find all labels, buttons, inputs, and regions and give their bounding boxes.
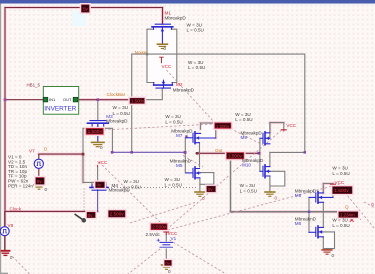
svg-text:L = 0.5U: L = 0.5U [188,65,205,70]
node right rail corner [304,151,307,154]
halo out row wire [200,152,260,155]
transistor M5 (vertical, gate left) [186,167,200,179]
transistor M6 (vertical, gate left) [309,226,323,238]
svg-text:Noise: Noise [135,50,147,55]
svg-text:1.500v: 1.500v [228,154,242,159]
wire M4 gate clock drop [97,190,99,211]
svg-text:0: 0 [275,196,278,201]
node clockbar at purple row [130,151,133,154]
svg-text:Out: Out [215,148,223,153]
svg-text:VCC: VCC [335,180,345,185]
wire dashed K [231,129,264,146]
wire M7 drain loop [201,123,216,138]
svg-text:0: 0 [168,269,171,274]
node noise rail crossing [146,53,148,55]
purple wire row [98,152,186,211]
svg-text:L = 0.5U: L = 0.5U [235,117,252,122]
source V7 pulse [34,154,43,178]
halo m8 vcc wire [323,184,333,193]
wire V8 to ground [4,236,6,251]
svg-text:L = 0.5U: L = 0.5U [165,183,182,188]
svg-text:G: G [371,202,374,207]
svg-text:M9: M9 [241,135,248,140]
svg-text:M2: M2 [176,82,183,87]
svg-text:VCC: VCC [98,160,108,165]
bias box M8 1.500v [333,187,352,195]
svg-text:M10: M10 [242,163,251,168]
svg-text:0v: 0v [88,213,93,218]
svg-text:W = 3U: W = 3U [165,177,180,182]
svg-text:W = 3U: W = 3U [113,105,128,110]
transistor M2 (horizontal, gate below) [154,80,173,88]
ground under V8 (selected red) [1,251,11,256]
wire D net from V7 to left rail [39,153,83,155]
svg-text:V8: V8 [8,223,14,228]
svg-text:0v: 0v [166,261,170,266]
ground under V1 [161,265,172,269]
wire left rail vertical [4,8,6,227]
bias box clock 2.500v [109,211,125,217]
wire M5 to ground [199,184,201,191]
wire clockbar to M2 gate [132,88,163,99]
halo clock wire [5,210,98,213]
ground under M1 [157,44,169,48]
bias box clock0v [87,212,95,218]
VCC symbol near M4 [97,165,99,167]
svg-text:W = 3U: W = 3U [332,166,347,171]
left window edge [0,4,1,274]
wire M10 to ground [269,186,271,191]
red X marker [350,218,361,222]
halo inverter out wire [78,98,132,101]
svg-text:L = 0.5U: L = 0.5U [332,223,349,228]
wire dashed VCC C [99,162,165,227]
wire V1 battery stem [165,230,167,242]
svg-text:1.500v: 1.500v [131,99,145,104]
ground under M5 [194,192,205,196]
wire M1M2 right rail [172,29,177,82]
svg-text:Q: Q [345,204,349,209]
svg-text:INVERTER: INVERTER [44,106,77,113]
svg-text:2.5Vdc: 2.5Vdc [146,232,161,237]
svg-text:W = 3U: W = 3U [165,114,180,119]
cell interiors [148,30,334,248]
source V1 battery [157,239,173,248]
node gate rail q row [308,211,311,214]
svg-text:1.500v: 1.500v [216,124,230,129]
wire dashed I [342,189,375,229]
transistor M7 (vertical, gate left) [186,132,216,144]
svg-text:OUT: OUT [63,97,72,102]
bias box Q 1.234m [339,212,358,218]
svg-text:0v: 0v [37,179,43,184]
wire dashed VCC A [167,70,215,123]
svg-text:0: 0 [164,46,167,51]
wire M6 source loop [322,232,335,249]
transistor M4 (horizontal, gate below) [90,184,108,190]
bias box out 1.500v [227,153,244,159]
transistor M9 (vertical, gate left) [260,132,270,145]
node inverter input on rail [4,98,7,101]
svg-text:M6: M6 [295,221,302,226]
wire M7 source / M5 drain [199,143,201,167]
ground under M6 (selected red) [321,250,332,254]
node out left [196,152,199,155]
bias box V7 0v [36,178,44,185]
wire noise purple row [112,151,185,153]
ground under V7 [33,185,44,189]
svg-text:W = 3U: W = 3U [187,22,202,27]
VCC symbol near M9 [281,129,287,132]
svg-text:0v: 0v [208,187,213,192]
transistor M3 (horizontal, gate on top) [88,121,109,142]
svg-text:L = 0.5U: L = 0.5U [187,28,204,33]
VCC symbol near M2 [159,57,163,63]
wire dashed VCC E [170,128,284,227]
wire dashed VCC B [104,124,213,130]
svg-text:W = 3U: W = 3U [235,112,250,117]
VCC symbol near M8 [330,184,336,187]
halo q wire [231,210,340,213]
svg-text:1.500V: 1.500V [88,129,104,134]
node D at left rail [82,153,85,156]
wire dashed gnd D [13,257,30,274]
wire left rail down to M4 [83,154,94,182]
wire M6 to ground [327,249,329,250]
node M3 gate at clockbar [97,98,100,101]
bias box clockbar 1.500v [130,98,145,103]
wire dashed H [130,203,195,224]
halo D wire [39,154,83,182]
svg-text:W = 3U: W = 3U [332,217,347,222]
node out at M9M10 gate rail [258,152,261,155]
wire dashed J [364,202,375,208]
svg-text:MbreakpD: MbreakpD [165,15,187,20]
svg-text:0: 0 [100,145,103,150]
wire out drop to q row [231,153,340,211]
source V8 pulse [0,211,9,250]
wire M1 gate from rail [162,8,164,25]
svg-text:M5: M5 [176,163,183,168]
svg-text:5v: 5v [83,6,89,11]
op block U1 INVERTER [43,87,78,115]
wire noise long rail [132,54,305,152]
wire M9 drain vcc [270,123,284,133]
wire M3 left to rail [83,128,92,154]
wire M3 right stub to purple row [104,128,113,152]
svg-text:0: 0 [45,187,48,192]
svg-text:MbreakpD: MbreakpD [106,119,128,124]
wire M8 bulk vcc [332,194,334,198]
svg-text:M7: M7 [176,133,183,138]
wire M9 bulk join [269,123,271,139]
svg-text:M8: M8 [295,193,302,198]
wire inverter output to ClockBar junction [78,99,132,101]
bias box M5 0v [207,186,216,192]
title bar [0,0,375,4]
wire M1M2 left rail [147,29,154,82]
wire out row [196,152,260,154]
svg-text:Clock: Clock [10,206,22,211]
wire dashed M [128,249,160,274]
svg-text:HB1_5: HB1_5 [27,83,41,88]
wire dashed VCC G [170,240,227,274]
svg-text:L = 0.5U: L = 0.5U [113,111,130,116]
svg-text:V1: V1 [171,236,177,241]
svg-text:L = 0.5U: L = 0.5U [124,184,141,189]
wire clockbar vertical [131,54,133,152]
svg-text:L = 0.5U: L = 0.5U [240,188,257,193]
wire M4 node [105,182,107,184]
wire M8M6 gate rail [308,197,310,232]
node M7 gate [185,135,187,137]
ground under M10 [264,192,275,196]
halo m7 drain loop [201,123,216,138]
wire M8 source / M6 drain [322,202,324,227]
transistor M8 (vertical, gate left) [309,192,333,204]
transistor M1 (horizontal, gate on top) [152,24,173,43]
svg-text:VCC: VCC [286,123,296,128]
wire 5V rail top [5,7,163,9]
svg-text:W = 3U: W = 3U [188,60,203,65]
wire M9M10 gate rail [259,138,261,171]
wire dashed VCC F [168,184,341,230]
selection cyan smudge [72,11,86,26]
bias box vcc 2.500v [151,224,167,230]
svg-text:MbreakpD: MbreakpD [173,87,195,92]
svg-text:W = 3U: W = 3U [240,183,255,188]
wire dotted zero net [84,188,197,213]
svg-text:2.500v: 2.500v [152,225,166,230]
wire M7M5 gate rail [184,138,186,173]
wire M10 drain up and right [269,152,271,166]
wire clock row [5,210,98,212]
bias box M3 1.500V [86,128,103,134]
svg-text:0: 0 [332,253,335,258]
svg-text:1.500v: 1.500v [334,188,349,194]
wire M4 vcc drop [97,167,99,182]
wire dashed L [183,156,203,168]
wire M10 source loop [270,171,285,186]
svg-text:IN1: IN1 [49,97,56,102]
wire V1 battery to ground [165,249,167,265]
wire M8 drain vcc [323,184,333,193]
halo m9 vcc wire [270,123,284,132]
wire M5 source loop [200,173,214,185]
halo 5V rail [5,8,163,227]
svg-text:VCC: VCC [162,64,172,69]
transistor M10 (vertical, gate left) [260,165,270,178]
bias box 5v on rail [82,5,90,12]
VCC symbol V1 [163,232,169,235]
svg-text:V7: V7 [29,149,35,154]
bias box M4 2.500v [96,182,105,188]
svg-text:PER = 124n: PER = 124n [8,183,33,188]
svg-text:L = 0.5U: L = 0.5U [332,171,349,176]
wire inverter input [5,99,43,101]
svg-text:0: 0 [202,196,205,201]
svg-text:W = 3U: W = 3U [124,179,139,184]
svg-text:L = 0.5U: L = 0.5U [165,119,182,124]
svg-text:ClockBar: ClockBar [107,92,126,97]
svg-text:2.500v: 2.500v [110,212,124,217]
node purple left [111,151,114,154]
wire M3 gate drop [97,100,99,121]
ground under M3 [91,142,105,146]
node purple right [184,151,187,154]
bias box M7 1.500v [215,123,231,129]
bias box V1 0v [165,260,172,265]
